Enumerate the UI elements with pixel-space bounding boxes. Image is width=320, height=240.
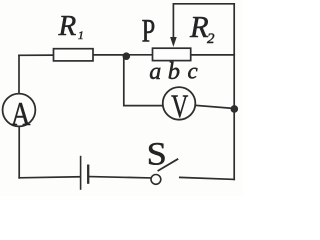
svg-text:A: A: [11, 95, 31, 133]
svg-text:R: R: [189, 10, 209, 44]
slider wire with arrow: [170, 4, 177, 47]
svg-text:c: c: [187, 59, 197, 84]
battery: [81, 156, 89, 190]
wire junction down to voltmeter: [124, 56, 163, 105]
wire right vertical rail: [233, 4, 235, 180]
wire R1 to junction dot: [93, 54, 126, 56]
svg-text:R: R: [57, 10, 76, 42]
junction dot right: [231, 105, 239, 113]
wire bottom-left horizontal: [19, 177, 80, 178]
resistor R1: [54, 49, 94, 61]
wire switch to bottom-right corner: [180, 177, 234, 179]
ammeter A: [3, 94, 36, 127]
wire left vertical bottom: [18, 126, 20, 177]
svg-text:P: P: [142, 13, 156, 49]
wire top horizontal: [173, 3, 234, 5]
switch S: [151, 159, 178, 185]
svg-text:2: 2: [207, 31, 215, 47]
svg-text:a: a: [149, 59, 161, 85]
wire voltmeter to right junction dot: [195, 105, 230, 108]
voltmeter V: [163, 87, 196, 120]
wire junction dot to R2: [126, 54, 153, 56]
svg-text:V: V: [171, 89, 188, 126]
svg-text:S: S: [147, 135, 167, 172]
svg-text:1: 1: [78, 30, 84, 42]
junction dot left: [123, 52, 131, 60]
wire battery to switch: [89, 177, 150, 178]
rheostat R2: [153, 48, 191, 60]
wire top-left horizontal: [19, 54, 54, 56]
svg-text:b: b: [168, 58, 180, 85]
wire R2 right to right rail: [191, 54, 235, 56]
wire left vertical top: [18, 55, 20, 94]
